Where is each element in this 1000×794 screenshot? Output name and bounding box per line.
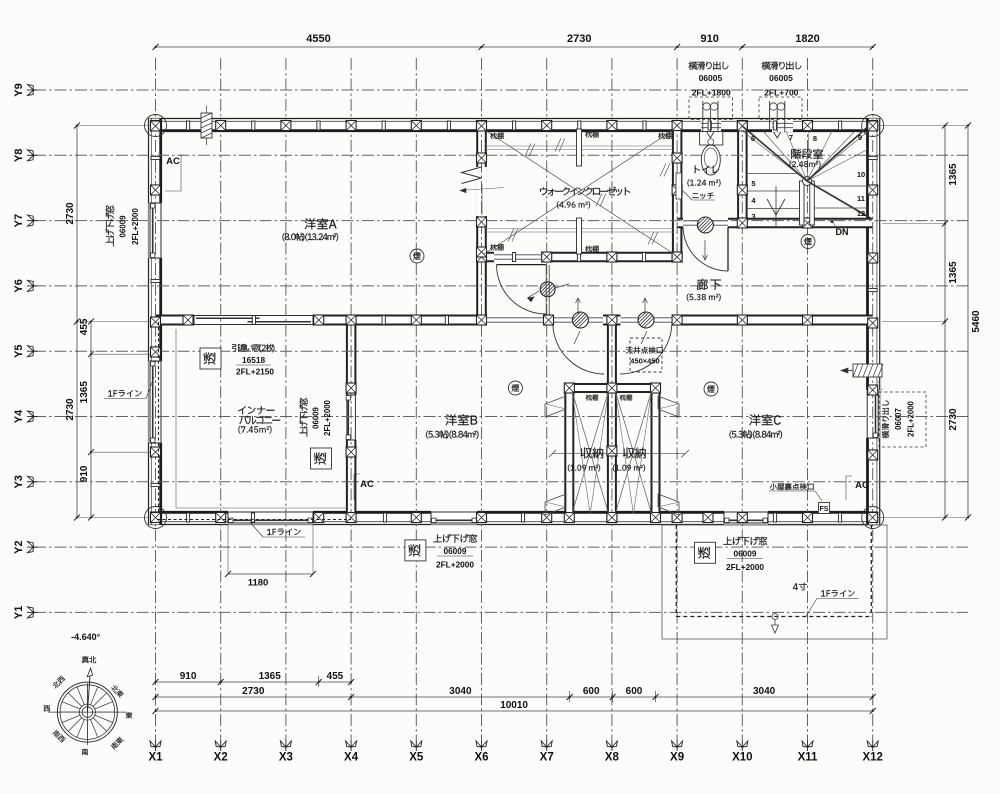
svg-text:3040: 3040 bbox=[449, 686, 472, 697]
posts toilet/stair bbox=[737, 218, 747, 228]
window top wall stair bbox=[772, 119, 793, 132]
svg-text:3: 3 bbox=[751, 212, 755, 221]
grid line Y7 bbox=[34, 220, 968, 222]
grid line X10 bbox=[741, 58, 743, 741]
label inner balcony bbox=[238, 406, 274, 414]
svg-text:Y9: Y9 bbox=[13, 83, 25, 96]
wall storage top bbox=[565, 384, 659, 392]
compass label 西 bbox=[44, 706, 50, 712]
svg-text:1820: 1820 bbox=[795, 33, 819, 45]
wall storage center X8 bbox=[608, 320, 616, 518]
1F line bold dashed vertical right bbox=[870, 525, 872, 617]
round post toilet corner bbox=[697, 217, 713, 233]
window sliding 16518 in y=320 wall bbox=[194, 314, 313, 326]
window right wall 06007 bbox=[866, 390, 880, 438]
svg-text:X7: X7 bbox=[540, 752, 554, 764]
svg-text:6: 6 bbox=[751, 134, 755, 143]
axis marker X6 bbox=[476, 741, 487, 752]
svg-text:910: 910 bbox=[180, 671, 197, 682]
svg-text:2FL+2000: 2FL+2000 bbox=[907, 400, 916, 436]
annotation sliding window 16518 bbox=[232, 344, 274, 352]
compass label 北東 bbox=[110, 684, 124, 698]
1F line bold dashed vertical left bbox=[675, 525, 677, 617]
label corridor bbox=[697, 279, 721, 290]
svg-text:Y3: Y3 bbox=[13, 475, 25, 488]
axis marker X7 bbox=[541, 741, 552, 752]
tou box bottom B bbox=[405, 540, 426, 561]
svg-text:FS: FS bbox=[820, 506, 829, 513]
compass label 南西 bbox=[52, 729, 66, 743]
svg-text:1365: 1365 bbox=[79, 381, 90, 404]
grid line X4 bbox=[350, 58, 352, 741]
svg-text:AC: AC bbox=[360, 479, 374, 490]
axis marker Y2 bbox=[27, 542, 38, 553]
svg-text:12: 12 bbox=[857, 209, 865, 218]
svg-text:455: 455 bbox=[79, 318, 90, 335]
label 1Fライン left bbox=[108, 390, 142, 397]
switch arrow toilet bbox=[704, 240, 706, 260]
compass label 真北 bbox=[82, 656, 96, 663]
switch arrow C up bbox=[644, 298, 646, 314]
svg-text:X8: X8 bbox=[605, 752, 620, 764]
stair treads left bbox=[747, 173, 800, 175]
grid line X12 bbox=[872, 58, 874, 741]
svg-text:910: 910 bbox=[79, 465, 90, 482]
label toilet bbox=[695, 166, 719, 174]
door arc room C bbox=[620, 325, 672, 375]
label 4寸 bbox=[793, 583, 807, 591]
dimension top 4550/2730/910/1820 bbox=[156, 46, 873, 48]
WIC cross diagonals bbox=[484, 130, 674, 255]
axis marker X2 bbox=[215, 741, 226, 752]
wall exterior right bbox=[867, 119, 880, 525]
posts bottom wall bbox=[151, 513, 161, 523]
axis marker Y8 bbox=[27, 150, 38, 161]
svg-text:600: 600 bbox=[626, 686, 643, 697]
label WIC bbox=[540, 187, 630, 196]
corner column circle bbox=[862, 507, 884, 529]
axis marker X11 bbox=[802, 741, 813, 752]
storage shelf wing top-left bbox=[545, 396, 566, 417]
svg-text:Y2: Y2 bbox=[13, 540, 25, 553]
round post corridor X7 bbox=[540, 282, 555, 297]
tou box bottom C bbox=[695, 542, 716, 563]
window bottom wall balcony 1180 bbox=[228, 511, 313, 525]
grid line X11 bbox=[807, 58, 809, 741]
storage shelf wing top-right bbox=[658, 396, 679, 417]
wall storage east bbox=[652, 388, 660, 518]
WIC partition stub bottom bbox=[577, 218, 582, 254]
posts top wall bbox=[151, 121, 161, 131]
svg-text:2FL+1800: 2FL+1800 bbox=[692, 87, 731, 97]
window left wall lower (balcony) bbox=[149, 361, 163, 443]
door arc room B bbox=[553, 325, 605, 375]
label storage L bbox=[580, 447, 603, 458]
svg-text:X1: X1 bbox=[148, 752, 163, 764]
smoke detector room B bbox=[508, 381, 522, 395]
1F dashed line bottom wall bbox=[157, 519, 351, 521]
svg-text:8: 8 bbox=[813, 134, 817, 143]
switch arrow B up bbox=[577, 298, 579, 314]
1F dashed line left wall bbox=[158, 322, 160, 515]
svg-text:1365: 1365 bbox=[948, 261, 959, 284]
opening corridor wall 487-543 bbox=[487, 314, 543, 326]
dimension left 2730/2730 bbox=[76, 126, 78, 518]
label niche bbox=[692, 193, 713, 199]
studs top wall bbox=[187, 121, 190, 130]
switch arrow C down bbox=[641, 331, 647, 344]
axis marker Y7 bbox=[27, 215, 38, 226]
dimension bottom extension ticks bbox=[569, 691, 571, 702]
svg-text:X3: X3 bbox=[279, 752, 293, 764]
svg-text:Y5: Y5 bbox=[13, 344, 25, 357]
svg-text:06007: 06007 bbox=[894, 408, 903, 430]
axis marker Y6 bbox=[27, 280, 38, 291]
svg-text:Y1: Y1 bbox=[13, 606, 25, 619]
axis marker Y1 bbox=[27, 607, 38, 618]
svg-text:Y8: Y8 bbox=[13, 149, 25, 162]
svg-text:1365: 1365 bbox=[259, 671, 282, 682]
svg-text:2FL+2000: 2FL+2000 bbox=[726, 562, 764, 572]
stair heavy diagonals bbox=[743, 127, 807, 182]
grid line X9 bbox=[676, 58, 678, 741]
pipe space hatched rect bbox=[201, 113, 212, 138]
wall corridor south y=320 bbox=[156, 316, 873, 325]
label 1Fライン right bbox=[821, 590, 855, 597]
storage hanger pole bbox=[552, 453, 685, 455]
compass label 北西 bbox=[52, 675, 66, 689]
svg-text:3040: 3040 bbox=[753, 686, 776, 697]
dimension left 455/1365/910 bbox=[90, 322, 92, 518]
svg-text:2FL+2150: 2FL+2150 bbox=[236, 367, 274, 377]
tou box balcony bbox=[200, 348, 221, 369]
label stair room bbox=[791, 149, 823, 159]
label room B bbox=[446, 414, 478, 425]
svg-text:X11: X11 bbox=[798, 752, 818, 764]
round post on wall 2 bbox=[638, 312, 654, 328]
wall exterior left bbox=[149, 119, 162, 525]
wall WIC east X9 bbox=[673, 126, 682, 262]
corner column circle bbox=[145, 507, 167, 529]
switch arrow corridor bbox=[528, 291, 540, 298]
svg-text:7: 7 bbox=[789, 133, 793, 142]
compass needle bbox=[87, 668, 90, 712]
window in X4 wall 06009 bbox=[345, 395, 357, 440]
attic access FS bbox=[770, 483, 814, 490]
grid line X5 bbox=[415, 58, 417, 741]
svg-text:Y4: Y4 bbox=[13, 409, 25, 423]
compass NS line bbox=[86, 683, 88, 745]
smoke detector room A bbox=[410, 249, 424, 263]
door opening WIC bbox=[494, 251, 548, 263]
label 1Fライン bottom bbox=[267, 529, 301, 536]
dimension bottom row3 10010 bbox=[156, 710, 873, 712]
balcony 1180 dim bbox=[228, 573, 313, 575]
tou box balcony right bbox=[311, 448, 332, 469]
posts storage bbox=[607, 383, 617, 393]
dimension right 5460 bbox=[967, 126, 969, 518]
grid line X1 bbox=[155, 58, 157, 741]
switch arrow B down bbox=[574, 331, 580, 344]
svg-text:600: 600 bbox=[583, 686, 600, 697]
dimension bottom row1 910/1365/455 bbox=[156, 681, 352, 683]
WIC shelf lines bottom bbox=[484, 228, 674, 230]
wall exterior top bbox=[149, 119, 880, 132]
stair winder treads bbox=[742, 131, 807, 181]
door opening toilet bbox=[683, 217, 728, 229]
grid line Y6 bbox=[34, 285, 968, 287]
svg-text:450×450: 450×450 bbox=[630, 357, 659, 366]
smoke detector room C bbox=[704, 382, 718, 396]
grid line X7 bbox=[546, 58, 548, 741]
compass label 南 bbox=[82, 749, 88, 755]
compass label 南東 bbox=[110, 736, 124, 750]
svg-text:5460: 5460 bbox=[971, 310, 982, 333]
window top wall toilet bbox=[701, 119, 721, 132]
svg-text:2730: 2730 bbox=[948, 408, 959, 431]
axis marker X12 bbox=[867, 741, 878, 752]
svg-text:X9: X9 bbox=[670, 752, 684, 764]
axis marker Y9 bbox=[27, 85, 38, 96]
svg-text:2FL+700: 2FL+700 bbox=[764, 87, 799, 97]
annotation X4 window 上げ下げ窓06009 bbox=[299, 398, 307, 437]
dimension bottom row2 2730/3040/600/600/3040 bbox=[156, 696, 873, 698]
svg-text:2FL+2000: 2FL+2000 bbox=[131, 208, 140, 245]
wall balcony east X4 bbox=[347, 320, 356, 518]
svg-text:X2: X2 bbox=[214, 752, 228, 764]
compass EW line bbox=[48, 711, 126, 713]
toilet niche bbox=[676, 173, 682, 199]
door opening room C bbox=[621, 314, 673, 326]
window annotation right 横滑り出し 06007 2FL+2000 bbox=[879, 392, 926, 447]
grid line X3 bbox=[285, 58, 287, 741]
annotation bottom window B 上げ下げ窓06009 bbox=[433, 534, 477, 543]
storage cross l bbox=[572, 391, 609, 514]
window left wall upper 06009 bbox=[149, 203, 163, 258]
corner column circle bbox=[145, 115, 167, 137]
grid line Y3 bbox=[34, 481, 968, 483]
axis marker Y3 bbox=[27, 476, 38, 487]
svg-text:455: 455 bbox=[327, 671, 344, 682]
wall exterior bottom bbox=[149, 512, 880, 525]
storage shelf wing bottom-right bbox=[658, 494, 679, 515]
axis marker X3 bbox=[280, 741, 291, 752]
svg-text:2FL+2000: 2FL+2000 bbox=[436, 560, 474, 570]
axis marker X10 bbox=[737, 741, 748, 752]
window annotation top-left 横滑り出し 06005 2FL+1800 bbox=[689, 62, 729, 70]
label room A bbox=[305, 218, 337, 229]
axis marker X5 bbox=[411, 741, 422, 752]
door arc WIC bbox=[497, 264, 546, 266]
grid line Y9 bbox=[34, 89, 968, 91]
posts left wall bbox=[151, 121, 161, 131]
door opening room B bbox=[554, 314, 603, 326]
wall X6 lower (room A east) bbox=[477, 257, 486, 320]
grid line X8 bbox=[611, 58, 613, 741]
ceiling access box 450x450 bbox=[630, 338, 662, 372]
svg-text:10010: 10010 bbox=[500, 700, 528, 711]
svg-text:1180: 1180 bbox=[248, 578, 269, 589]
svg-text:06005: 06005 bbox=[769, 73, 793, 83]
svg-text:2730: 2730 bbox=[242, 686, 265, 697]
svg-text:-4.640°: -4.640° bbox=[71, 632, 101, 642]
storage cross r bbox=[615, 391, 651, 514]
svg-text:X4: X4 bbox=[344, 752, 359, 764]
wall toilet east X10 bbox=[738, 126, 747, 224]
svg-text:06009: 06009 bbox=[443, 546, 466, 556]
wall storage west bbox=[565, 388, 573, 518]
window bottom wall roomB 06009 bbox=[431, 511, 477, 525]
dimension right extension lines bbox=[878, 125, 968, 127]
posts WIC walls bbox=[477, 252, 487, 262]
dimension right 1365/1365/2730 bbox=[944, 126, 946, 518]
grid line X2 bbox=[220, 58, 222, 741]
svg-text:16518: 16518 bbox=[242, 355, 265, 365]
svg-text:X5: X5 bbox=[409, 752, 424, 764]
svg-text:Y7: Y7 bbox=[13, 214, 25, 227]
svg-text:X12: X12 bbox=[862, 752, 882, 764]
posts corridor wall bbox=[183, 315, 193, 325]
balcony inner line bbox=[176, 329, 347, 508]
svg-text:X10: X10 bbox=[732, 752, 752, 764]
slope marker circle+arrow bbox=[772, 614, 778, 620]
corner column circle bbox=[862, 115, 884, 137]
WIC hatch marks bbox=[525, 144, 531, 157]
round post on wall 1 bbox=[572, 312, 588, 328]
folding door WIC entrance bbox=[462, 167, 482, 178]
smoke detector stair bbox=[801, 235, 815, 249]
svg-text:9: 9 bbox=[858, 133, 862, 142]
stair down line+arrow bbox=[775, 186, 777, 226]
svg-text:5: 5 bbox=[751, 179, 755, 188]
annotation left wall window 上げ下げ窓06009 bbox=[106, 205, 115, 246]
svg-text:AC: AC bbox=[855, 480, 869, 491]
window bottom wall roomC 06009 bbox=[724, 511, 768, 525]
svg-text:10: 10 bbox=[857, 170, 865, 179]
grid line Y8 bbox=[34, 154, 968, 156]
grid line Y5 bbox=[34, 350, 968, 352]
svg-text:06009: 06009 bbox=[733, 549, 756, 559]
wall toilet/stair south y=223 bbox=[677, 219, 873, 228]
grid line Y1 bbox=[34, 611, 968, 613]
1F line bold dashed horizontal bbox=[676, 616, 871, 618]
stair center rail bbox=[800, 181, 805, 225]
dimension left extension lines bbox=[77, 125, 150, 127]
svg-text:06009: 06009 bbox=[119, 215, 128, 238]
window right wall hatched bbox=[853, 364, 882, 377]
svg-text:2FL+2000: 2FL+2000 bbox=[323, 399, 332, 435]
WIC shelf lines top bbox=[484, 145, 674, 147]
opening WIC west wall (folding door) bbox=[476, 167, 487, 216]
svg-text:2730: 2730 bbox=[65, 202, 76, 225]
compass spokes bbox=[95, 711, 114, 713]
annotation bottom window C 上げ下げ窓06009 bbox=[723, 537, 767, 546]
storage 枕棚 labels bbox=[586, 395, 598, 401]
axis marker X1 bbox=[150, 741, 161, 752]
WIC label 枕棚 x5 bbox=[490, 133, 503, 139]
svg-text:Y6: Y6 bbox=[13, 279, 25, 292]
svg-text:DN: DN bbox=[836, 227, 849, 237]
label storage R bbox=[623, 447, 646, 458]
svg-text:X6: X6 bbox=[474, 752, 488, 764]
door arc toilet bbox=[727, 227, 729, 271]
svg-text:06009: 06009 bbox=[312, 406, 321, 428]
svg-text:2730: 2730 bbox=[567, 33, 591, 45]
compass circles bbox=[57, 682, 117, 742]
label room C bbox=[749, 414, 780, 425]
storage shelf wing bottom-left bbox=[545, 494, 566, 515]
axis marker Y5 bbox=[27, 346, 38, 357]
1F roof outline rect bbox=[662, 525, 887, 639]
svg-text:11: 11 bbox=[857, 194, 865, 203]
svg-text:1365: 1365 bbox=[948, 163, 959, 186]
svg-text:910: 910 bbox=[701, 33, 719, 45]
axis marker Y4 bbox=[27, 411, 38, 422]
toilet bowl bbox=[701, 145, 720, 175]
svg-text:06005: 06005 bbox=[699, 73, 723, 83]
posts right wall bbox=[868, 121, 878, 131]
grid line Y2 bbox=[34, 546, 968, 548]
stair treads right bbox=[814, 185, 868, 187]
grid line Y4 bbox=[34, 416, 968, 418]
svg-text:AC: AC bbox=[166, 156, 180, 167]
svg-text:2730: 2730 bbox=[65, 398, 76, 421]
compass label 東 bbox=[126, 712, 133, 718]
axis marker X4 bbox=[346, 741, 357, 752]
grid line X6 bbox=[481, 58, 483, 741]
axis marker X8 bbox=[606, 741, 617, 752]
svg-text:4550: 4550 bbox=[306, 33, 330, 45]
axis marker X9 bbox=[672, 741, 683, 752]
window annotation top-right 横滑り出し 06005 2FL+700 bbox=[762, 62, 802, 70]
wall WIC south bbox=[477, 253, 682, 261]
wall WIC west X6 bbox=[477, 126, 486, 258]
toilet tank bbox=[700, 132, 723, 146]
door jamb X7 corridor bbox=[545, 265, 547, 316]
WIC partition stub top bbox=[577, 129, 582, 166]
